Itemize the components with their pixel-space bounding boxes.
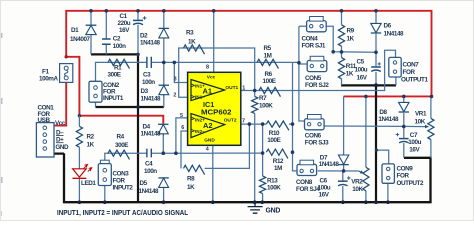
junction dots red mid rail <box>364 95 433 99</box>
wire: D3 lower lead <box>163 62 165 107</box>
capacitor C5 <box>371 62 381 71</box>
svg-text:CON9: CON9 <box>397 165 414 172</box>
svg-text:R3: R3 <box>186 30 194 37</box>
svg-text:10K: 10K <box>352 186 363 193</box>
svg-text:100mA: 100mA <box>39 76 59 83</box>
svg-text:5: 5 <box>180 113 183 119</box>
resistor R11 <box>338 58 344 79</box>
svg-text:C1: C1 <box>120 13 128 20</box>
svg-text:300E: 300E <box>115 142 128 149</box>
svg-text:100K: 100K <box>259 102 273 109</box>
svg-text:D3: D3 <box>141 88 149 95</box>
junction dots mid circuit <box>136 50 378 109</box>
svg-text:CON8: CON8 <box>296 179 313 186</box>
svg-text:1: 1 <box>242 85 245 91</box>
wire: D6 leads <box>375 11 377 53</box>
svg-text:R4: R4 <box>117 134 125 141</box>
svg-text:16V: 16V <box>357 74 368 81</box>
svg-text:2: 2 <box>173 93 176 99</box>
connector CON9 <box>382 164 394 183</box>
wire: pin3 stub <box>174 62 187 82</box>
svg-text:R7: R7 <box>259 95 267 102</box>
svg-text:1M: 1M <box>274 165 282 172</box>
svg-text:1N4148: 1N4148 <box>139 188 160 195</box>
op-amp A1 triangle <box>191 80 239 101</box>
svg-text:D6: D6 <box>384 23 392 30</box>
svg-text:10K: 10K <box>415 119 426 126</box>
svg-text:INPUT1, INPUT2 = INPUT AC/AUDI: INPUT1, INPUT2 = INPUT AC/AUDIO SIGNAL <box>57 210 189 217</box>
svg-text:3: 3 <box>174 77 177 83</box>
connector CON5 <box>307 56 327 71</box>
svg-text:100n: 100n <box>142 79 155 86</box>
svg-text:FOR SJ2: FOR SJ2 <box>305 82 329 89</box>
wire: input line channel2 <box>105 153 213 163</box>
LED LED1 <box>72 164 91 178</box>
resistor R12 <box>266 149 287 158</box>
svg-text:6: 6 <box>181 125 184 131</box>
svg-text:OUTPUT1: OUTPUT1 <box>401 76 428 83</box>
CON1 pin labels <box>55 120 69 151</box>
op-amp A2 triangle <box>191 114 237 138</box>
svg-text:OUT1: OUT1 <box>225 85 238 91</box>
scan frame specks <box>0 33 3 216</box>
resistor R9 <box>338 25 344 46</box>
wire: blue verticals from top rail (D1,C2,C1,D2,IC Vcc) <box>91 11 214 73</box>
svg-text:Vcc: Vcc <box>55 120 66 127</box>
svg-text:A1: A1 <box>203 87 213 96</box>
resistor R7 <box>252 97 258 114</box>
svg-text:VR1: VR1 <box>415 111 427 118</box>
svg-text:1N4148: 1N4148 <box>141 130 162 137</box>
svg-text:CON4: CON4 <box>302 35 319 42</box>
svg-text:FOR: FOR <box>113 177 126 184</box>
svg-text:7: 7 <box>242 118 245 124</box>
connector CON6 <box>305 115 325 130</box>
wire: red branch to lower-left Vcc rail <box>66 57 163 124</box>
svg-text:CON6: CON6 <box>305 133 322 140</box>
diode D5 <box>158 178 168 188</box>
svg-text:D1: D1 <box>71 27 79 34</box>
wire: black vertical C5 area down to rail <box>375 85 377 202</box>
svg-text:1K: 1K <box>347 35 355 42</box>
wire: OUT2 pin7 line to CON6 <box>241 123 293 125</box>
connector CON1 USB <box>36 123 54 157</box>
svg-text:220u: 220u <box>118 20 131 27</box>
junction dot red at F1 top branch <box>65 55 68 58</box>
svg-text:100u: 100u <box>355 66 368 73</box>
connector CON8 <box>297 160 317 175</box>
svg-text:16V: 16V <box>319 191 330 198</box>
resistor R1 <box>108 59 129 68</box>
resistor R13 <box>260 176 266 194</box>
resistor R8 <box>184 165 205 174</box>
svg-text:A2: A2 <box>203 121 213 130</box>
caption <box>57 210 189 217</box>
wire: bias line R1-C3-pin3-R5-CON5 <box>96 62 299 81</box>
svg-text:8: 8 <box>206 64 209 70</box>
svg-text:D5: D5 <box>140 180 148 187</box>
svg-text:1K: 1K <box>346 71 354 78</box>
resistor R5 <box>257 59 278 68</box>
svg-text:D2: D2 <box>140 33 148 40</box>
svg-text:100E: 100E <box>263 78 276 85</box>
svg-text:MCP602: MCP602 <box>201 108 232 117</box>
svg-text:16V: 16V <box>119 27 130 34</box>
wire: OUT1 line to CON7 top pin <box>241 50 396 90</box>
capacitor C1 <box>133 16 146 24</box>
svg-text:R1: R1 <box>114 64 122 71</box>
wire: D4 D5 vertical <box>162 136 164 203</box>
svg-text:100n: 100n <box>113 43 126 50</box>
svg-text:1K: 1K <box>187 184 195 191</box>
svg-text:FOR SJ3: FOR SJ3 <box>305 140 329 147</box>
diode D8 <box>399 102 409 112</box>
wire: CON9 top pin bracket <box>377 150 389 202</box>
connector CON7 <box>389 57 401 77</box>
svg-text:GND: GND <box>204 138 215 144</box>
wire: CON6 right to D8 node and VR1 wiper <box>325 125 425 128</box>
svg-text:FOR: FOR <box>397 172 410 179</box>
svg-text:100K: 100K <box>267 185 281 192</box>
svg-text:CON5: CON5 <box>305 75 322 82</box>
resistor R10 <box>266 121 289 130</box>
IC pin numbers <box>173 64 245 152</box>
svg-text:INPUT1: INPUT1 <box>103 95 124 102</box>
svg-text:100u: 100u <box>408 139 421 146</box>
wire: CON3 bottom to rail <box>104 186 106 203</box>
wire: black node D1/C2/C1 top-left <box>91 54 138 202</box>
svg-text:R13: R13 <box>267 177 278 184</box>
svg-text:1M: 1M <box>264 52 272 59</box>
resistor R2 <box>76 126 82 147</box>
svg-text:100E: 100E <box>267 137 280 144</box>
diode D2 <box>159 28 169 38</box>
resistor R3 <box>184 45 205 54</box>
svg-text:OUTPUT2: OUTPUT2 <box>397 180 424 187</box>
ground symbol <box>248 202 263 213</box>
svg-text:1N4148: 1N4148 <box>141 96 162 103</box>
connector CON4 <box>307 17 327 32</box>
wire: R10 R12 divider links <box>213 62 297 202</box>
svg-text:1K: 1K <box>87 141 95 148</box>
svg-text:CON3: CON3 <box>113 170 130 177</box>
svg-text:300E: 300E <box>108 71 121 78</box>
svg-text:4: 4 <box>206 146 209 152</box>
wire: C5 leads <box>375 52 377 85</box>
potentiometer VR2 <box>359 167 369 191</box>
wire: pin6 stub to R8 <box>181 124 249 168</box>
diode D3 <box>159 85 169 96</box>
capacitor C7 <box>396 133 409 143</box>
svg-text:R6: R6 <box>265 71 273 78</box>
diode D7 <box>338 155 348 165</box>
wire: R7 branch OUT1 to ground rail <box>254 91 256 203</box>
svg-text:INPUT2: INPUT2 <box>113 184 134 191</box>
svg-text:1N4148: 1N4148 <box>319 161 340 168</box>
svg-text:Vcc: Vcc <box>207 74 216 80</box>
wire: Vcc top rail (red) <box>66 11 431 97</box>
junction dots lower section <box>162 122 406 172</box>
svg-text:OUT2: OUT2 <box>224 118 237 124</box>
svg-text:1N4148: 1N4148 <box>140 40 161 47</box>
wire: SJ3/SJ4 select and VR2 chain <box>318 96 366 202</box>
wire: IC pin4 to ground rail <box>212 145 214 202</box>
resistor R4 <box>108 150 129 159</box>
op-amp IC1 MCP602 body <box>188 72 241 145</box>
svg-text:1N4007: 1N4007 <box>70 36 91 43</box>
svg-text:100n: 100n <box>144 168 157 175</box>
svg-text:VR2: VR2 <box>351 179 363 186</box>
junction dots top rail <box>89 9 378 13</box>
svg-text:1N4148: 1N4148 <box>378 116 399 123</box>
svg-text:1K: 1K <box>188 38 196 45</box>
svg-text:FOR SJ1: FOR SJ1 <box>302 42 326 49</box>
wire: D8 C7 chain <box>403 96 405 157</box>
svg-text:R5: R5 <box>264 45 272 52</box>
svg-text:C5: C5 <box>357 58 365 65</box>
svg-text:R9: R9 <box>347 27 355 34</box>
diode D6 <box>371 23 381 33</box>
wire: black CON2 to D3 ground link <box>96 102 164 107</box>
capacitor C3 <box>147 57 151 68</box>
connector CON3 <box>98 160 111 185</box>
diode D1 <box>86 25 97 34</box>
svg-text:R2: R2 <box>87 134 95 141</box>
fuse F1 <box>60 64 73 83</box>
svg-text:C4: C4 <box>145 160 153 167</box>
wire: R2 and LED1 chain <box>78 116 80 203</box>
svg-text:CON7: CON7 <box>403 62 420 69</box>
wire: CON4 stubs and SJ1 node <box>299 26 376 121</box>
svg-text:16V: 16V <box>409 146 420 153</box>
svg-text:C2: C2 <box>113 36 121 43</box>
wire: R3 loop pin2 to OUT1 <box>179 48 255 97</box>
svg-text:GND: GND <box>55 144 69 151</box>
svg-text:GND: GND <box>266 207 281 214</box>
svg-text:C3: C3 <box>143 72 151 79</box>
potentiometer VR1 <box>424 118 434 139</box>
wire: VR1 chain <box>430 96 432 157</box>
capacitor C4 <box>147 149 151 158</box>
capacitor C6 <box>338 176 351 186</box>
svg-text:100u: 100u <box>318 184 331 191</box>
junction dot red lower rail at R2 <box>78 114 81 117</box>
svg-text:R12: R12 <box>273 158 284 165</box>
svg-text:R8: R8 <box>187 175 195 182</box>
svg-text:USB: USB <box>38 117 51 124</box>
wire: ground bottom rail (black) <box>54 153 431 202</box>
svg-text:FOR: FOR <box>403 69 416 76</box>
junction dots bottom rail <box>78 200 390 204</box>
wire: pin5 stub to input line <box>176 118 188 153</box>
wire: black R11/C5/CON7 ground link <box>341 84 396 86</box>
capacitor C2 <box>102 39 111 44</box>
wire: CON7 bottom pin to ground <box>395 77 397 85</box>
svg-text:R10: R10 <box>269 130 280 137</box>
wire: R9 leads <box>341 11 343 86</box>
resistor R6 <box>259 87 280 96</box>
svg-text:F1: F1 <box>42 69 49 76</box>
svg-text:1N4148: 1N4148 <box>384 30 405 37</box>
wire: red from fuse F1 down to CON1 Vcc pin <box>54 82 66 125</box>
svg-text:C7: C7 <box>410 132 418 139</box>
svg-text:D8: D8 <box>379 109 387 116</box>
diode D4 <box>158 124 168 135</box>
svg-text:LED1: LED1 <box>81 180 96 187</box>
connector CON2 <box>89 81 102 102</box>
